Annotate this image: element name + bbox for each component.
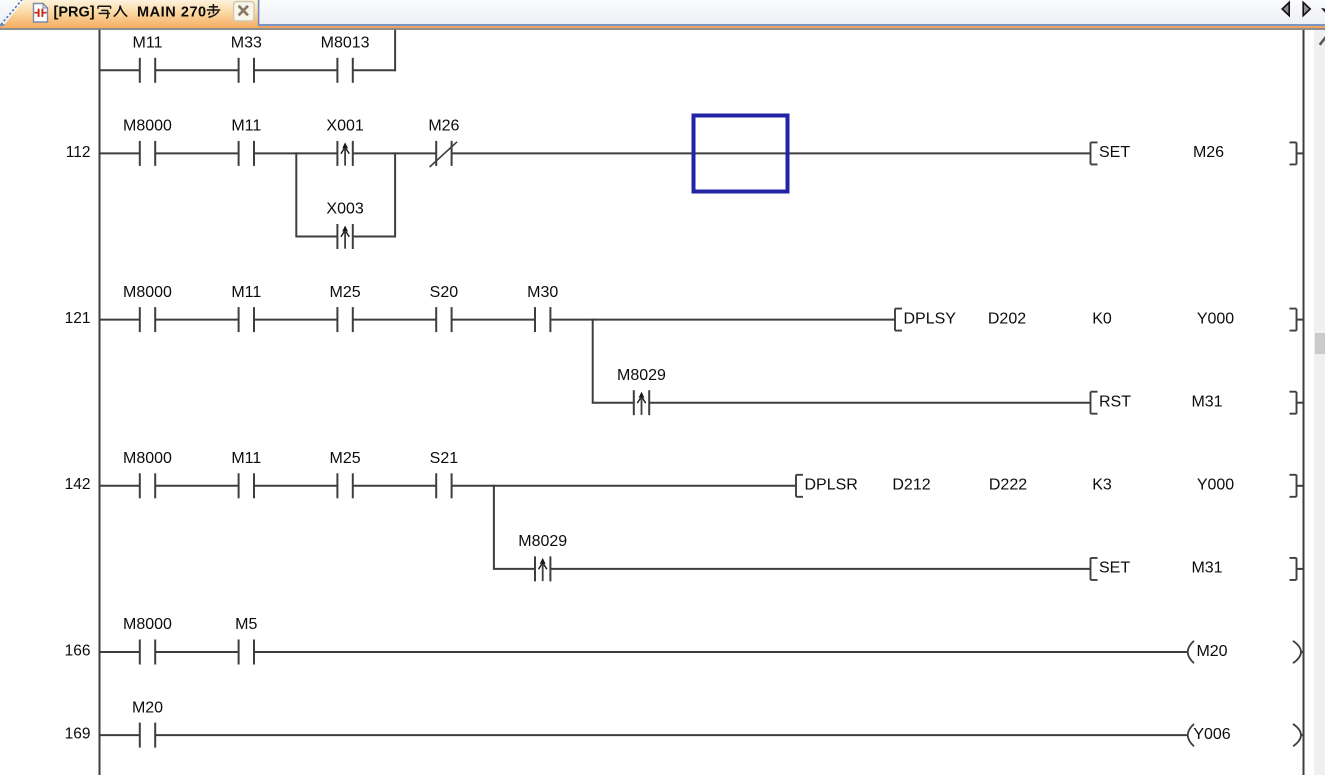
scrollbar thumb — [1315, 333, 1325, 354]
contact M20 rung169 — [132, 699, 163, 747]
blue separator line — [0, 24, 1325, 26]
orange separator line — [0, 26, 1325, 28]
wire rung0 segment 2 — [155, 69, 238, 71]
wire rung169 to coil — [155, 734, 1188, 736]
svg-text:M31: M31 — [1191, 560, 1222, 577]
svg-text:M8000: M8000 — [123, 118, 172, 135]
left bus bar — [99, 30, 101, 775]
contact X001 — [326, 118, 363, 166]
wire rung166 bus to M8000 — [100, 651, 140, 653]
svg-text:S21: S21 — [430, 450, 459, 467]
tab-scroll left arrow — [1282, 2, 1289, 15]
svg-text:M31: M31 — [1191, 394, 1222, 411]
wire rung112 M11 to X001 — [254, 152, 337, 154]
svg-text:D222: D222 — [989, 477, 1027, 494]
branch riser rung121 — [592, 319, 594, 404]
contact M8029 — [617, 367, 666, 415]
contact M25 — [330, 284, 361, 332]
wire rung121 seg4 — [353, 319, 436, 321]
tab bar background — [0, 0, 1325, 25]
wire rung112 M8000 to M11 — [155, 152, 238, 154]
svg-text:K0: K0 — [1092, 310, 1112, 327]
svg-text:SET: SET — [1099, 144, 1130, 161]
contact X003 — [326, 201, 363, 249]
wire rung142 seg3 — [254, 485, 337, 487]
gray separator line — [0, 28, 1325, 30]
svg-text:112: 112 — [66, 144, 91, 161]
wire rung0 riser to previous row — [394, 30, 396, 72]
wire rung112 X001 to M26 — [353, 152, 436, 154]
wire rung112 M26 to SET — [452, 152, 1091, 154]
wire rung0 segment 1 — [100, 69, 140, 71]
svg-text:M33: M33 — [231, 35, 262, 52]
contact M11 — [133, 35, 163, 83]
svg-text:M26: M26 — [1193, 144, 1224, 161]
svg-text:M26: M26 — [428, 118, 459, 135]
coil M20 — [1188, 641, 1304, 663]
active tab body — [2, 0, 258, 28]
contact M33 — [231, 35, 262, 83]
svg-text:M25: M25 — [330, 450, 361, 467]
contact M5 — [235, 616, 257, 664]
svg-text:166: 166 — [65, 642, 91, 659]
wire rung142 to DPLSR — [452, 485, 796, 487]
svg-text:M11: M11 — [133, 35, 163, 52]
wire M8029 branch rung142 — [494, 568, 535, 570]
svg-text:142: 142 — [65, 476, 91, 493]
instruction SET M31 — [1091, 558, 1304, 580]
svg-text:D212: D212 — [892, 477, 930, 494]
instruction RST M31 — [1091, 392, 1304, 414]
contact S20 — [430, 284, 459, 332]
svg-text:DPLSR: DPLSR — [805, 477, 858, 494]
svg-text:S20: S20 — [430, 284, 459, 301]
svg-text:RST: RST — [1099, 394, 1131, 411]
svg-text:D202: D202 — [988, 310, 1026, 327]
instruction SET M26 — [1091, 142, 1304, 164]
svg-text:M30: M30 — [527, 284, 558, 301]
wire rung142 seg2 — [155, 485, 238, 487]
branch right riser rung112 — [394, 152, 396, 237]
svg-text:M8029: M8029 — [617, 367, 666, 384]
svg-text:M8000: M8000 — [123, 450, 172, 467]
contact M8000 rung166 — [123, 616, 172, 664]
svg-text:DPLSY: DPLSY — [904, 310, 957, 327]
branch riser rung142 — [493, 485, 495, 570]
svg-text:169: 169 — [65, 726, 91, 743]
svg-text:Y000: Y000 — [1197, 477, 1234, 494]
contact M30 — [527, 284, 558, 332]
wire rung166 seg2 — [155, 651, 238, 653]
tab-list dropdown arrow (clipped) — [1321, 8, 1325, 13]
wire rung121 bus to M8000 — [100, 319, 140, 321]
CJK glyph: 步 — [207, 4, 220, 17]
svg-text:M11: M11 — [231, 450, 261, 467]
scrollbar track — [1314, 30, 1325, 775]
close button — [234, 2, 255, 22]
wire rung169 bus to M20 — [100, 734, 140, 736]
contact M8013 — [321, 35, 370, 83]
wire rung0 segment 3 — [254, 69, 337, 71]
svg-text:Y006: Y006 — [1193, 726, 1230, 743]
svg-text:SET: SET — [1099, 560, 1130, 577]
wire rung121 seg2 — [155, 319, 238, 321]
contact M8000 rung142 — [123, 450, 172, 498]
instruction DPLSY D202 K0 Y000 — [895, 309, 1304, 331]
wire rung112 bus to M8000 — [100, 152, 140, 154]
CJK glyph: 写 — [98, 6, 111, 18]
program document icon — [34, 4, 48, 23]
wire M8029 to SET M31 — [550, 568, 1090, 570]
right bus bar — [1303, 30, 1305, 775]
contact S21 — [430, 450, 459, 498]
wire rung142 seg4 — [353, 485, 436, 487]
contact M8000 rung121 — [123, 284, 172, 332]
tab right blue edge — [258, 0, 260, 26]
svg-text:121: 121 — [65, 310, 91, 327]
wire rung121 to DPLSY — [550, 319, 895, 321]
contact M26 — [428, 118, 459, 167]
wire rung0 segment 4 — [353, 69, 395, 71]
contact M8029 rung142 — [518, 533, 567, 581]
scrollbar up arrow — [1320, 37, 1325, 45]
svg-text:K3: K3 — [1092, 477, 1112, 494]
svg-text:M11: M11 — [231, 284, 261, 301]
tab-scroll right arrow — [1303, 2, 1310, 15]
contact M11 rung121 — [231, 284, 261, 332]
svg-text:Y000: Y000 — [1197, 310, 1234, 327]
wire M8029 to RST — [649, 402, 1090, 404]
CJK glyph: 入 — [114, 6, 127, 17]
svg-text:X001: X001 — [326, 118, 363, 135]
svg-text:M8029: M8029 — [518, 533, 567, 550]
contact M25 rung142 — [330, 450, 361, 498]
contact M11 rung112 — [231, 118, 261, 166]
edit cursor cell highlight — [694, 116, 788, 192]
wire rung121 seg5 — [452, 319, 535, 321]
contact M11 rung142 — [231, 450, 261, 498]
svg-text:M20: M20 — [132, 699, 163, 716]
svg-text:M11: M11 — [231, 118, 261, 135]
svg-text:M8000: M8000 — [123, 616, 172, 633]
instruction DPLSR D212 D222 K3 Y000 — [796, 475, 1304, 497]
wire rung142 bus to M8000 — [100, 485, 140, 487]
tab slant dotted blue edge — [1, 0, 23, 25]
svg-text:X003: X003 — [326, 201, 363, 218]
svg-text:M8013: M8013 — [321, 35, 370, 52]
svg-text:M25: M25 — [330, 284, 361, 301]
svg-text:M8000: M8000 — [123, 284, 172, 301]
wire X003 branch left — [296, 236, 337, 238]
wire rung166 to coil — [254, 651, 1189, 653]
wire M8029 branch rung121 — [593, 402, 634, 404]
coil Y006 — [1188, 724, 1304, 746]
contact M8000 — [123, 118, 172, 166]
svg-text:M20: M20 — [1196, 643, 1227, 660]
wire X003 branch right — [353, 236, 395, 238]
svg-text:M5: M5 — [235, 616, 257, 633]
wire rung121 seg3 — [254, 319, 337, 321]
branch left riser rung112 — [295, 152, 297, 237]
